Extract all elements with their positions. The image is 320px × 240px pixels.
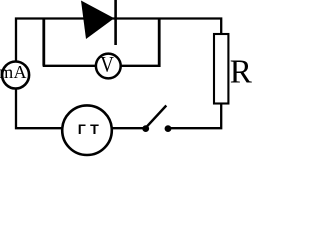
wire: V-branch left vertical from top wire down bbox=[42, 19, 45, 66]
wire: generator to switch left contact bbox=[111, 127, 143, 129]
milliammeter mA circle bbox=[2, 62, 29, 89]
wire: V-branch horizontal right segment from voltmeter bbox=[121, 65, 159, 67]
svg-text:mA: mA bbox=[0, 62, 27, 82]
wire: left vertical below milliammeter to bottom-left corner, then right to generator bbox=[16, 89, 63, 129]
resistor R rectangle bbox=[214, 34, 228, 104]
switch S1 lever bbox=[146, 106, 166, 128]
svg-text:V: V bbox=[100, 53, 114, 77]
switch S1 right contact dot bbox=[165, 125, 172, 132]
svg-text:Г Т: Г Т bbox=[78, 122, 99, 138]
wire: V-branch horizontal left segment to voltmeter bbox=[43, 65, 96, 67]
generator GT circle bbox=[62, 105, 112, 155]
diode VD1 cathode bar bbox=[114, 0, 117, 45]
wire: V-branch right vertical up to top wire bbox=[158, 19, 161, 68]
svg-text:R: R bbox=[230, 53, 253, 91]
wire: switch right contact to bottom-right corner, up to resistor bottom bbox=[171, 104, 222, 128]
wire: left vertical + top wire + right drop to resistor bbox=[16, 19, 221, 62]
switch S1 left contact dot bbox=[142, 125, 149, 132]
diode VD1 triangle (anode) bbox=[81, 1, 114, 40]
voltmeter V circle bbox=[96, 54, 121, 79]
